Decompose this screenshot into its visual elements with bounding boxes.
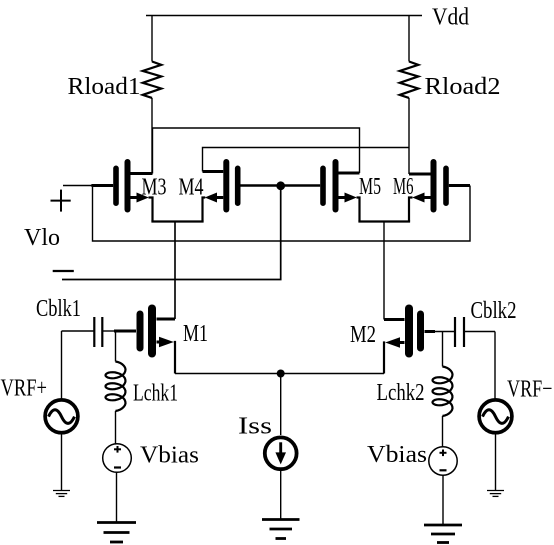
svg-text:Vdd: Vdd [432,4,469,31]
svg-text:Rload1: Rload1 [68,73,141,100]
wire M4 drain to Rload2 node [203,148,410,172]
inductor Lchk2 [433,367,453,417]
wire Rload2 bottom to M6 drain [408,98,410,174]
wire Lchk2 to Vbias right [442,416,444,447]
svg-text:M1: M1 [183,320,208,347]
svg-text:Vbias: Vbias [140,442,199,469]
svg-text:M4: M4 [179,174,204,201]
resistor Rload2 [400,62,419,98]
inductor Lchk1 [106,362,126,412]
wire M5/M6 common source [358,220,410,222]
source Vbias right [429,447,457,525]
transistor M4 (mirrored) [203,162,281,222]
svg-text:Lchk1: Lchk1 [133,380,178,407]
wire LO+ to M6 gate [93,186,471,242]
ground Vbias right [424,525,462,543]
transistor M5 [281,162,360,222]
ground VRF+ (small) [53,491,70,497]
svg-text:Rload2: Rload2 [425,73,501,100]
source VRF- [479,332,512,491]
wire Lchk1 to Vbias [115,411,117,444]
wire Rload1 bottom to M3 drain [151,98,153,174]
wire Rload2 top lead [408,16,410,62]
transistor M2 (mirrored) [384,309,455,374]
node Iss junction dot [277,370,285,378]
capacitor Cblk1 [62,317,115,347]
transistor M6 (mirrored) [409,162,470,222]
capacitor Cblk2 [455,317,495,347]
ground VRF- (small) [487,491,504,497]
svg-text:Vbias: Vbias [367,441,427,468]
wire Rload1 top lead [151,16,153,62]
ground Iss [262,520,300,539]
svg-text:VRF+: VRF+ [1,375,48,402]
svg-text:VRF−: VRF− [507,376,553,403]
current source Iss [265,374,297,520]
ground Vbias left [97,523,136,543]
svg-text:M5: M5 [359,173,381,200]
wire Vdd rail [146,15,422,17]
resistor Rload1 [143,62,162,98]
wire gate node to Lchk1 [115,331,117,362]
svg-text:M3: M3 [142,174,167,201]
svg-text:Vlo: Vlo [24,224,60,251]
svg-text:M2: M2 [350,321,376,348]
svg-text:Cblk2: Cblk2 [471,297,517,324]
wire M3/M4 common source [151,220,203,222]
source Vbias left [103,444,132,523]
svg-text:Cblk1: Cblk1 [36,295,81,322]
wire quad right source to M2 drain [383,222,385,320]
wire Rload1 node to M5 drain [152,128,360,173]
wire quad left source to M1 drain [174,222,176,320]
source VRF+ [45,331,78,491]
wire M1/M2 common source [175,373,384,375]
svg-text:M6: M6 [393,173,414,200]
transistor M1 [114,222,175,374]
svg-text:Iss: Iss [238,413,272,440]
Vlo plus terminal [51,190,71,212]
svg-text:Lchk2: Lchk2 [377,379,425,406]
wire gate node to Lchk2 [442,332,444,367]
transistor M3 [63,128,153,222]
Vlo minus terminal [53,270,74,272]
wire LO- to M4/M5 gates [62,189,281,280]
node LO gate junction dot [276,181,285,190]
